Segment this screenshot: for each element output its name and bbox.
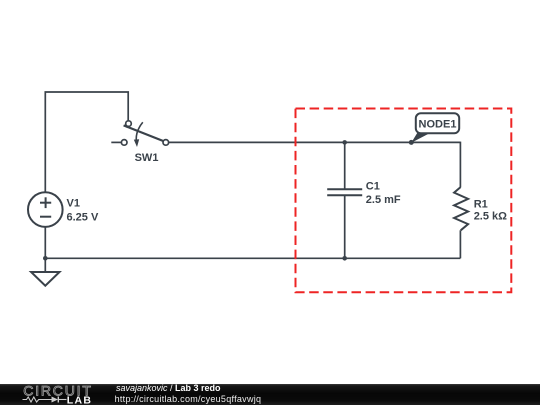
wire: right branch upper segment [459, 142, 461, 187]
wire: right branch lower segment [459, 230, 461, 258]
junction: ground node [43, 256, 48, 261]
node NODE1 label box [416, 113, 459, 133]
footer bar [0, 384, 540, 405]
wire: capacitor bottom stub [344, 195, 346, 258]
node NODE1 dot [409, 140, 414, 145]
footer url line [115, 394, 262, 404]
wire: switch output to right corner [169, 141, 461, 143]
junction: capacitor bottom [342, 256, 347, 261]
junction: capacitor top [342, 140, 347, 145]
wire: V1 bottom to ground junction [44, 227, 46, 272]
red dashed highlight box [296, 109, 512, 293]
svg-text:C1: C1 [366, 180, 380, 192]
svg-text:6.25 V: 6.25 V [67, 211, 99, 223]
svg-text:V1: V1 [67, 198, 80, 210]
wire: capacitor top stub [344, 142, 346, 189]
footer CircuitLab logo [0, 382, 100, 405]
svg-text:NODE1: NODE1 [419, 119, 457, 131]
capacitor C1 [327, 189, 362, 195]
ground [31, 272, 59, 286]
svg-text:2.5 mF: 2.5 mF [366, 194, 401, 206]
svg-text:R1: R1 [474, 199, 488, 211]
resistor R1 [454, 187, 468, 230]
wire: bottom rail [45, 257, 460, 259]
footer title line [116, 383, 221, 393]
wire: V1 top to top-left corner [45, 92, 128, 192]
svg-text:SW1: SW1 [135, 152, 159, 164]
svg-text:LAB: LAB [67, 395, 92, 405]
svg-text:2.5 kΩ: 2.5 kΩ [474, 210, 507, 222]
node NODE1 callout tail [411, 133, 431, 143]
voltage source V1 [28, 192, 63, 227]
switch SW1 [111, 121, 168, 147]
